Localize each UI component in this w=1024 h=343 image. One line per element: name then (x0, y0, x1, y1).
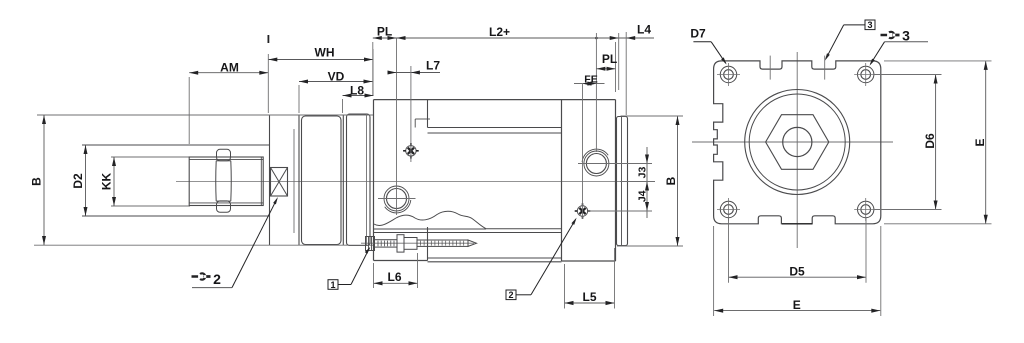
svg-text:L5: L5 (582, 290, 596, 304)
KK thread extension lines (111, 156, 190, 158)
svg-text:1: 1 (330, 280, 335, 290)
callout 3 (boxed) (865, 20, 875, 30)
callout wrench 2 (192, 272, 211, 281)
dim PL front (373, 37, 397, 39)
mounting holes (720, 66, 736, 82)
cushion needle body block (397, 235, 404, 252)
dim L6 (374, 282, 418, 284)
svg-text:D7: D7 (690, 27, 706, 41)
gland boss outline / D2 extension lines (82, 144, 270, 146)
dim L2+ (397, 37, 619, 39)
svg-text:D6: D6 (923, 133, 937, 149)
cylinder tube outline (374, 99, 616, 101)
svg-text:FE: FE (584, 74, 597, 86)
front head block (373, 100, 375, 261)
rod cover front face (269, 115, 271, 245)
dim D6 (935, 75, 937, 210)
dim D2 (85, 145, 87, 216)
rear boss block (617, 117, 628, 246)
svg-text:E: E (973, 138, 987, 146)
dim D5 (729, 276, 867, 278)
dim L5 (565, 302, 615, 304)
svg-text:PL: PL (602, 52, 617, 66)
dim L4 (619, 37, 654, 39)
svg-text:D2: D2 (71, 173, 85, 189)
end plate with sensor notches (714, 61, 881, 224)
dim FE (574, 83, 605, 85)
rear cushion valve (577, 206, 587, 216)
svg-text:VD: VD (328, 70, 345, 84)
piston rod male thread (189, 157, 263, 206)
dim VD (299, 81, 373, 83)
notch centre ticks (769, 56, 771, 80)
svg-text:WH: WH (315, 46, 335, 60)
dim AM (189, 72, 268, 74)
svg-text:AM: AM (220, 61, 239, 75)
cushion needle threaded shaft (375, 240, 398, 247)
dim B left (43, 115, 45, 245)
dim PL rear (596, 68, 615, 70)
svg-text:PL: PL (377, 24, 392, 38)
end view centerlines (692, 141, 893, 143)
rear port centre extension (595, 33, 597, 152)
dim WH (268, 59, 373, 61)
svg-text:L7: L7 (426, 58, 440, 72)
dim E vertical (985, 61, 987, 224)
svg-text:2: 2 (508, 290, 513, 300)
svg-text:J4: J4 (636, 190, 648, 202)
dim L7 (388, 72, 440, 74)
callout 1 (boxed) (328, 280, 338, 290)
svg-text:B: B (30, 177, 44, 186)
tube bore lines (428, 127, 562, 129)
svg-text:3: 3 (902, 28, 910, 44)
dim L8 (343, 95, 374, 97)
cushion needle centerline (361, 242, 474, 244)
junction dot on L2+ (595, 37, 598, 40)
svg-text:J3: J3 (637, 167, 649, 179)
rod hex flats (766, 115, 829, 170)
svg-text:L8: L8 (350, 83, 364, 97)
boss circle outer (745, 90, 850, 195)
rear head block (561, 100, 563, 261)
svg-text:L4: L4 (637, 23, 651, 37)
cover plate double wall (293, 129, 295, 233)
svg-text:B: B (664, 176, 678, 185)
B extension lines (left) (37, 114, 374, 116)
svg-text:2: 2 (213, 271, 221, 287)
rod bushing (crossed square) (271, 168, 288, 197)
dim J4 (645, 202, 649, 211)
spacer wall (342, 115, 344, 246)
dim J3 (646, 147, 648, 218)
dim B right (677, 116, 679, 246)
svg-text:L6: L6 (387, 270, 401, 284)
front cushion valve (406, 146, 416, 156)
cushion needle stem (417, 240, 468, 246)
rod circle (783, 127, 812, 156)
callout wrench 3 (881, 31, 900, 40)
clamp block (302, 116, 342, 245)
svg-text:KK: KK (100, 173, 114, 191)
cushion needle screw head (366, 237, 375, 251)
rear port (586, 154, 606, 174)
section break (wavy) line (374, 211, 486, 228)
dim KK (113, 157, 115, 206)
svg-text:D5: D5 (789, 265, 805, 279)
svg-text:L2+: L2+ (489, 25, 510, 39)
tube socket in front head (415, 118, 430, 120)
mid collar block (347, 114, 371, 246)
dim E horizontal (714, 310, 880, 312)
centerline of piston rod (176, 181, 655, 183)
front port (387, 189, 407, 209)
svg-text:E: E (793, 298, 801, 312)
callout 2 (boxed) (506, 290, 516, 300)
rod hex nut (217, 149, 231, 161)
boss circle inner (749, 94, 845, 190)
svg-text:3: 3 (867, 20, 872, 30)
